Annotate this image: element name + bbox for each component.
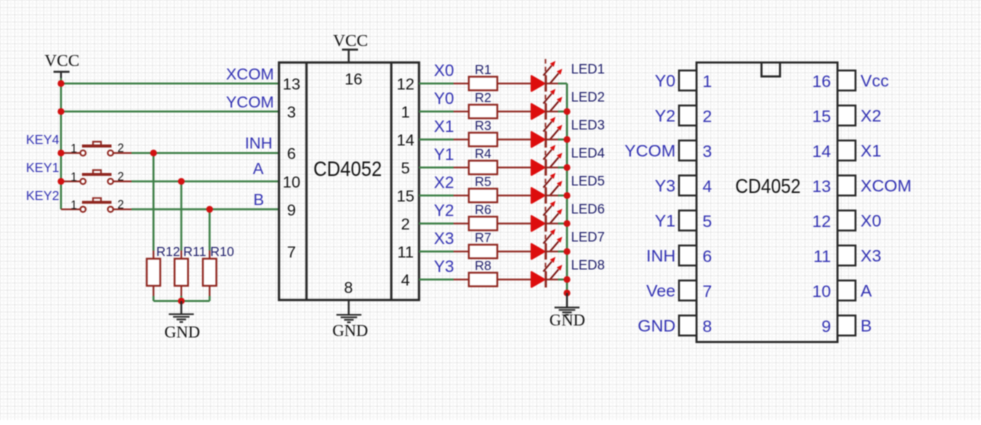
svg-text:X1: X1 [434,118,454,136]
svg-text:Vcc: Vcc [861,72,890,91]
svg-text:2: 2 [118,172,124,184]
svg-text:X0: X0 [434,62,454,80]
svg-text:4: 4 [401,273,410,290]
svg-text:X3: X3 [861,247,882,266]
svg-text:KEY1: KEY1 [26,160,59,175]
svg-text:B: B [253,192,264,209]
svg-text:9: 9 [287,202,296,219]
svg-text:YCOM: YCOM [625,142,676,161]
svg-text:LED1: LED1 [571,62,605,77]
svg-text:15: 15 [812,107,831,126]
svg-text:Y1: Y1 [655,212,676,231]
svg-text:GND: GND [549,311,585,330]
svg-text:14: 14 [812,142,831,161]
svg-text:VCC: VCC [333,31,368,50]
svg-text:16: 16 [812,72,831,91]
svg-text:10: 10 [283,174,301,191]
svg-text:R8: R8 [475,258,492,273]
svg-text:LED5: LED5 [571,174,605,189]
svg-text:11: 11 [813,247,831,266]
svg-text:5: 5 [703,212,712,231]
svg-text:R4: R4 [475,146,492,161]
svg-text:R1: R1 [475,62,492,77]
svg-text:13: 13 [812,177,831,196]
svg-text:14: 14 [397,133,415,150]
svg-text:INH: INH [245,136,273,153]
svg-text:Vee: Vee [646,282,675,301]
svg-text:YCOM: YCOM [226,94,274,111]
svg-text:6: 6 [703,247,712,266]
svg-text:10: 10 [812,282,831,301]
svg-text:1: 1 [71,200,77,212]
svg-text:XCOM: XCOM [226,66,274,83]
svg-text:13: 13 [283,77,301,94]
svg-text:1: 1 [703,72,712,91]
svg-text:A: A [253,161,264,178]
svg-text:CD4052: CD4052 [735,176,801,198]
svg-text:Y2: Y2 [434,202,454,220]
svg-text:LED6: LED6 [571,202,605,217]
svg-text:R12: R12 [156,244,180,259]
svg-text:8: 8 [703,317,712,336]
svg-text:2: 2 [118,200,124,212]
svg-text:LED2: LED2 [571,90,605,105]
svg-text:X1: X1 [861,142,882,161]
svg-text:Y0: Y0 [655,72,676,91]
svg-text:R2: R2 [475,90,492,105]
svg-text:Y3: Y3 [434,258,454,276]
svg-text:LED7: LED7 [571,230,605,245]
svg-text:12: 12 [397,77,415,94]
svg-text:2: 2 [118,143,124,155]
svg-text:R11: R11 [183,244,206,259]
svg-text:R10: R10 [210,244,234,259]
svg-text:LED3: LED3 [571,118,605,133]
svg-text:GND: GND [638,317,676,336]
svg-text:LED4: LED4 [571,146,605,161]
svg-text:VCC: VCC [45,51,80,70]
svg-text:16: 16 [345,72,363,89]
svg-text:Y2: Y2 [655,107,676,126]
svg-text:LED8: LED8 [571,258,605,273]
svg-text:X2: X2 [861,107,882,126]
svg-text:Y0: Y0 [434,90,454,108]
svg-text:A: A [861,282,873,301]
svg-text:8: 8 [344,280,353,297]
svg-text:11: 11 [397,245,414,262]
svg-text:CD4052: CD4052 [313,157,382,181]
svg-text:4: 4 [703,177,712,196]
svg-text:9: 9 [822,317,831,336]
svg-text:X2: X2 [434,174,454,192]
svg-text:1: 1 [71,172,77,184]
svg-text:Y1: Y1 [434,146,454,164]
svg-text:KEY2: KEY2 [26,188,59,203]
svg-text:1: 1 [71,144,77,156]
svg-text:3: 3 [703,142,712,161]
svg-text:XCOM: XCOM [861,177,912,196]
svg-text:12: 12 [812,212,831,231]
svg-text:INH: INH [646,247,675,266]
svg-text:15: 15 [397,189,415,206]
svg-text:B: B [861,317,872,336]
svg-text:R3: R3 [475,118,492,133]
svg-text:R7: R7 [475,230,492,245]
svg-text:3: 3 [287,105,296,122]
svg-text:1: 1 [401,105,410,122]
svg-text:5: 5 [401,161,410,178]
svg-text:R6: R6 [475,202,492,217]
svg-text:7: 7 [703,282,712,301]
svg-text:6: 6 [287,146,296,163]
svg-text:2: 2 [401,217,410,234]
svg-text:X3: X3 [434,230,454,248]
svg-text:2: 2 [703,107,712,126]
svg-text:Y3: Y3 [655,177,676,196]
svg-text:KEY4: KEY4 [26,132,59,147]
svg-text:R5: R5 [475,174,492,189]
svg-text:X0: X0 [861,212,882,231]
svg-text:GND: GND [332,321,368,340]
svg-text:7: 7 [287,245,296,262]
svg-text:GND: GND [164,323,200,342]
